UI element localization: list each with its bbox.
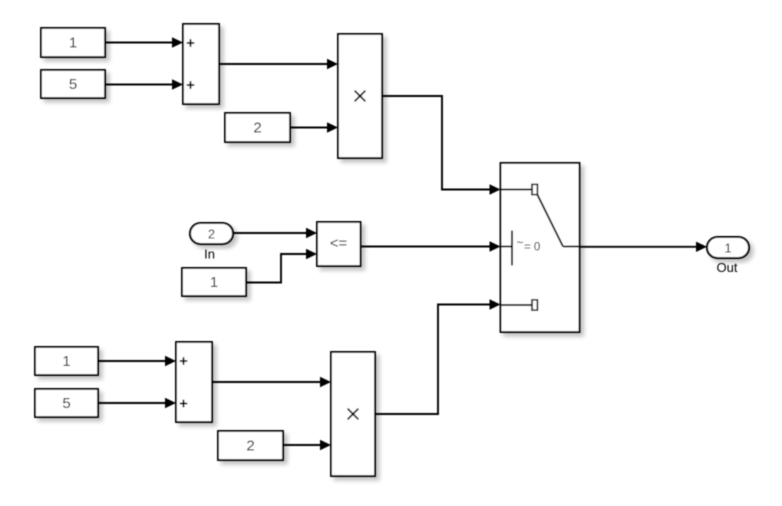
switch input-2 stub [501,246,513,248]
svg-text:1: 1 [69,35,77,52]
svg-text:1: 1 [62,353,70,370]
outport oval Out "1" [707,237,749,275]
svg-text:In: In [204,247,215,262]
switch threshold bar [511,231,513,266]
svg-text:2: 2 [253,120,261,137]
inport oval In "2" [190,223,233,262]
relational operator block <= [317,222,361,266]
switch output stub [563,246,580,248]
switch selector diagonal [537,195,563,247]
svg-text:1: 1 [210,274,218,291]
svg-text:2: 2 [246,438,254,455]
svg-text:2: 2 [208,227,215,242]
constant block Constant "2" (top group) [225,113,290,142]
product block Multiply (bottom group) [331,352,375,476]
wire Sum to Product input 1 (bottom) [212,377,331,387]
constant block Constant "5" (top group) [41,70,105,98]
constant block Constant "5" (bottom group) [35,389,98,417]
switch port marker bottom [532,300,537,310]
product block Multiply (top group) [338,34,382,158]
wire Relational to Switch input 2 [361,241,501,251]
svg-text:~: ~ [517,236,524,250]
svg-text:5: 5 [69,76,77,93]
sum block Add (bottom group) [176,342,212,422]
wire Product (top) to Switch input 1 [382,96,501,195]
wire Constant1 to Sum input 1 (bottom) [98,356,176,366]
wire Constant2 to Product input 2 (bottom) [283,440,331,450]
svg-text:1: 1 [724,241,731,256]
sum block Add (top group) [183,24,219,104]
wire Switch to Out [580,242,708,252]
wire Constant1 to Relational input 2 [246,249,317,283]
wire Sum to Product input 1 (top group) [219,59,338,69]
wire Constant2 to Product input 2 (top group) [290,122,338,132]
wire Constant5 to Sum input 2 (bottom) [98,398,176,408]
wire Product (bottom) to Switch input 3 [375,299,501,414]
svg-text:5: 5 [62,395,70,412]
switch block Switch [501,163,580,332]
wire Constant5 to Sum input 2 [105,79,183,89]
switch input-1 stub [501,189,533,191]
svg-text:Out: Out [717,260,738,275]
constant block Constant "1" (top group) [41,28,105,57]
constant block Constant "1" (bottom group) [35,347,98,375]
constant block Constant "1" (middle) [182,268,246,296]
switch port marker top [532,184,537,194]
svg-text:<=: <= [330,235,348,252]
wire Constant1 to Sum input 1 [105,37,183,47]
wire In to Relational input 1 [233,228,317,238]
switch input-3 stub [501,304,533,306]
svg-text:= 0: = 0 [524,242,540,254]
constant block Constant "2" (bottom group) [218,431,283,460]
